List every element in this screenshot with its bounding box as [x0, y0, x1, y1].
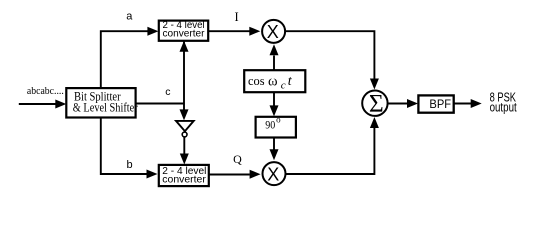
- block U3 2-4 level converter (Q path): [159, 165, 209, 186]
- arrowhead down into summer: [370, 79, 379, 90]
- arrowhead down into X2: [270, 149, 279, 160]
- svg-text:90: 90: [265, 118, 275, 132]
- svg-text:Q: Q: [233, 152, 242, 166]
- arrowhead into converter 1: [147, 27, 158, 36]
- arrowhead into X1: [249, 27, 260, 36]
- svg-text:c: c: [281, 80, 286, 92]
- svg-text:cos: cos: [248, 73, 265, 88]
- oscillator block cos wc t: [244, 70, 305, 92]
- output arrowhead: [471, 99, 482, 108]
- svg-text:X: X: [267, 165, 279, 185]
- wire junction vertical (converter1 bottom to inverter): [183, 41, 185, 110]
- wire Q (converter 2 to X2): [209, 174, 250, 176]
- arrowhead into X2: [250, 170, 261, 179]
- arrowhead down into converter 2: [180, 154, 189, 165]
- svg-text:b: b: [127, 159, 133, 171]
- wire summer to BPF: [388, 103, 407, 105]
- svg-text:a: a: [126, 11, 133, 23]
- arrowhead up into X1: [270, 44, 279, 55]
- wire b (splitter bottom to converter 2): [101, 118, 147, 175]
- arrowhead into BPF: [407, 99, 418, 108]
- svg-text:Σ: Σ: [369, 88, 384, 117]
- inverter (NOT gate): [176, 121, 194, 137]
- svg-text:BPF: BPF: [429, 97, 451, 111]
- arrowhead up into converter 1 bottom: [180, 41, 189, 52]
- input arrowhead: [55, 100, 66, 109]
- arrowhead down into 90 box: [270, 105, 279, 116]
- svg-text:o: o: [276, 115, 281, 125]
- input wire: [19, 103, 57, 105]
- wire cos to 90 box: [273, 92, 275, 106]
- block U2 2-4 level converter (I path): [159, 20, 208, 41]
- multiplier X2 (bottom mixer): [263, 162, 286, 185]
- svg-text:ω: ω: [268, 73, 278, 89]
- arrowhead into converter 2: [147, 170, 158, 179]
- block 90 degree phase shifter: [256, 115, 296, 138]
- wire c (splitter to junction): [136, 103, 184, 105]
- wire I (converter 1 to multiplier X1): [208, 30, 249, 32]
- svg-text:c: c: [165, 86, 170, 98]
- svg-text:X: X: [267, 22, 279, 42]
- svg-text:output: output: [490, 100, 517, 114]
- arrowhead down into inverter: [180, 109, 189, 120]
- svg-text:& Level Shifter: & Level Shifter: [73, 101, 139, 115]
- block U1 Bit Splitter & Level Shifter: [66, 88, 138, 117]
- wire X1 to summer: [285, 31, 374, 79]
- wire carrier to X1: [273, 56, 275, 71]
- arrowhead up into summer: [370, 117, 379, 128]
- svg-text:converter: converter: [162, 175, 206, 186]
- block BPF: [418, 95, 453, 112]
- svg-text:abcabc....: abcabc....: [27, 86, 64, 97]
- wire inverter to converter 2: [183, 137, 185, 154]
- wire X2 to summer: [286, 128, 375, 175]
- wire 90 box to X2: [273, 138, 275, 151]
- wire a (splitter top to converter 1): [101, 31, 148, 88]
- svg-text:converter: converter: [163, 29, 206, 40]
- svg-text:I: I: [235, 10, 239, 24]
- multiplier X1 (top mixer): [262, 20, 285, 43]
- summer sigma: [362, 88, 387, 117]
- output wire: [454, 103, 471, 105]
